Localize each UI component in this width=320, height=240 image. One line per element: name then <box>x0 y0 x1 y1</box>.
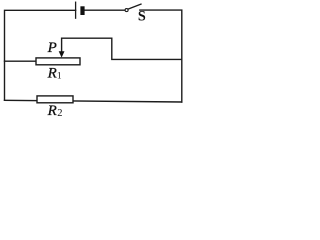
svg-text:1: 1 <box>57 71 62 81</box>
svg-text:R: R <box>47 66 57 82</box>
svg-text:P: P <box>47 40 57 56</box>
svg-text:2: 2 <box>57 108 62 119</box>
svg-text:S: S <box>138 8 146 24</box>
svg-text:R: R <box>47 103 57 119</box>
